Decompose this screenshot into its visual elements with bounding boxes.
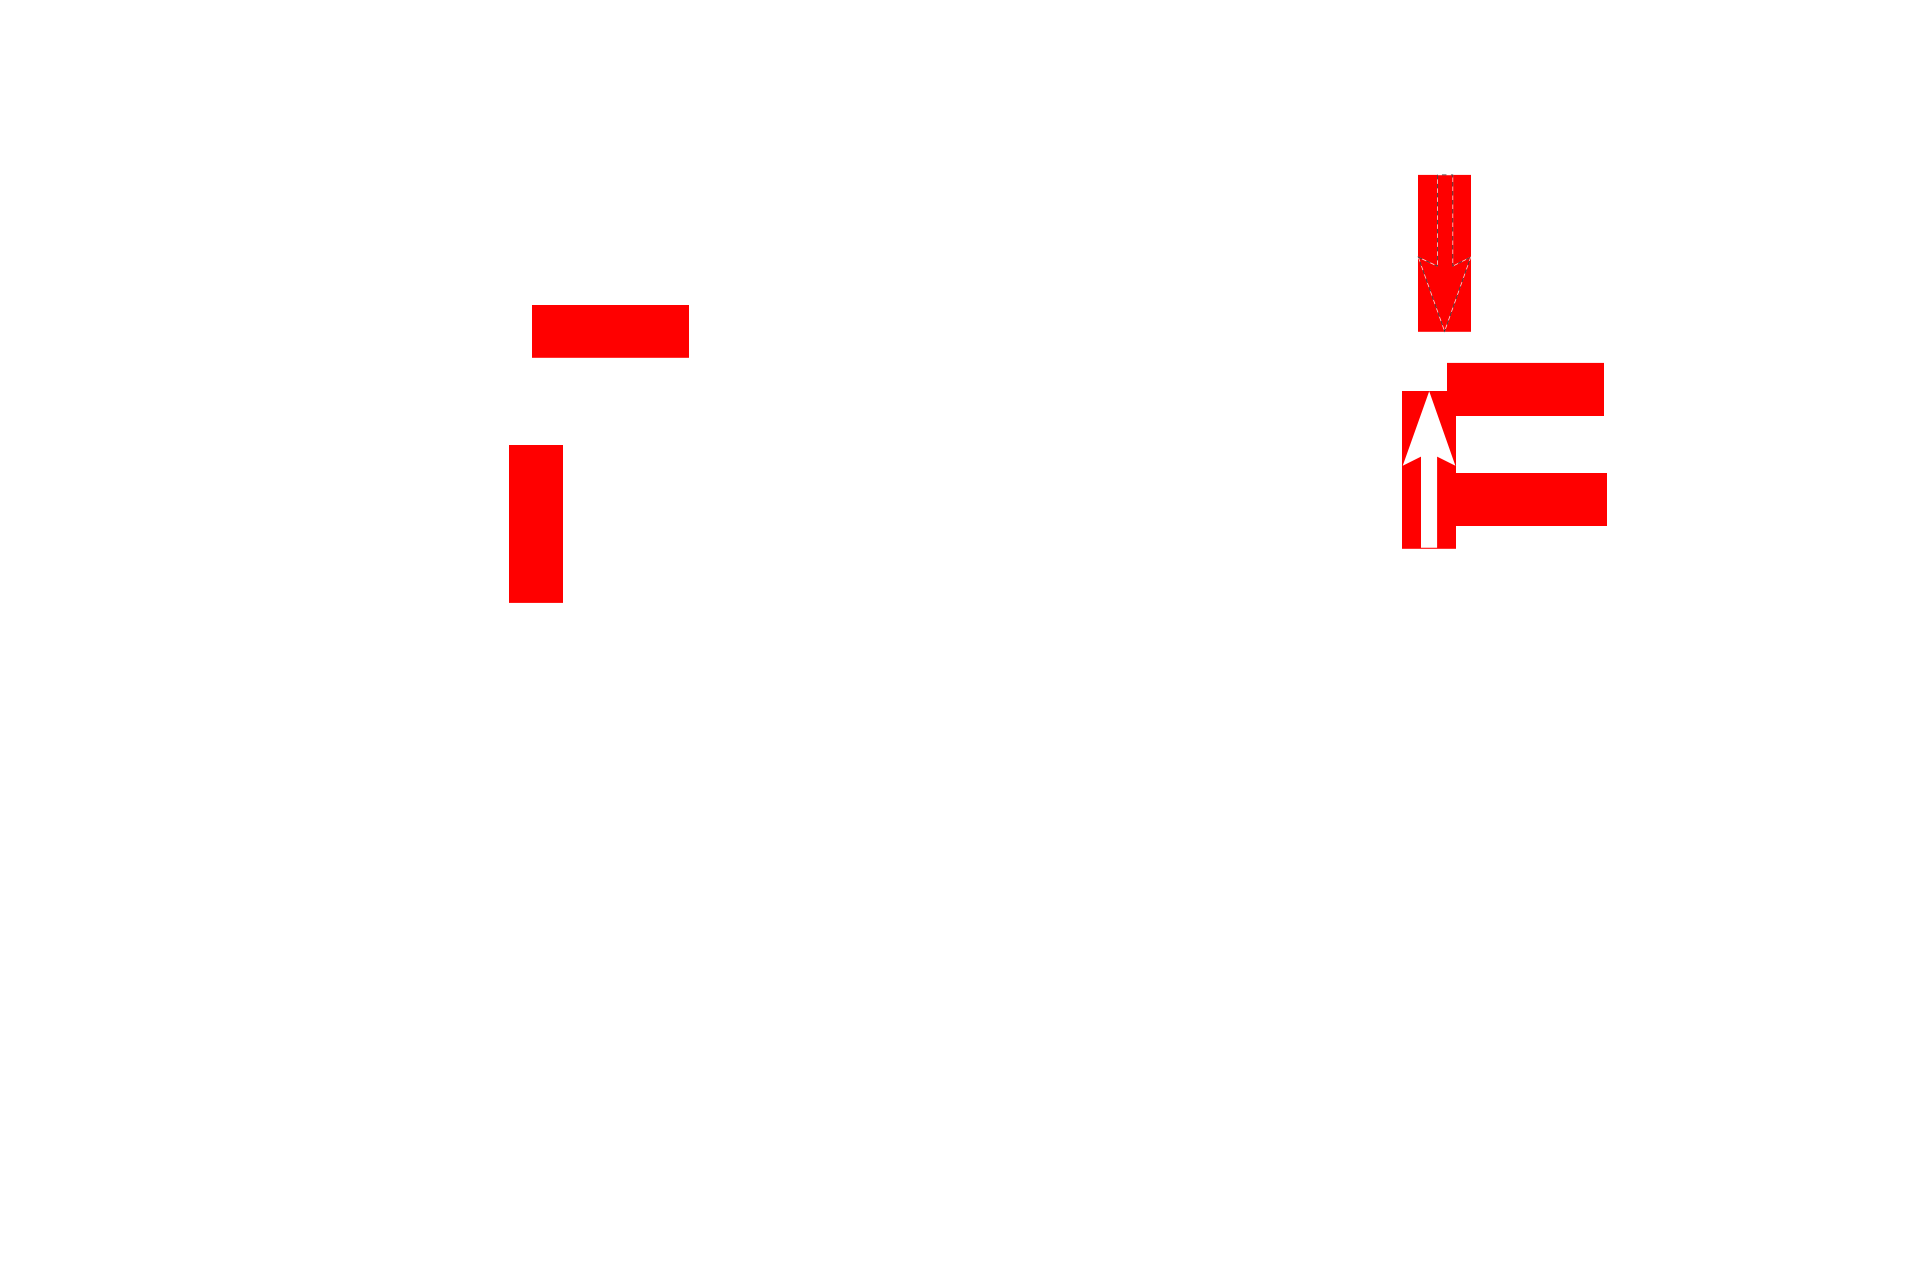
down arrow outline white underlay (1418, 175, 1470, 331)
down arrow outline black dashes (1418, 175, 1470, 331)
red horizontal bar (left group, top) (532, 305, 689, 358)
red horizontal bar (right group, top) (1447, 363, 1604, 416)
red vertical bar (right group, with up arrow) (1402, 391, 1456, 549)
red horizontal bar (right group, bottom) (1450, 473, 1607, 526)
white up arrow over red vertical bar (1403, 391, 1456, 548)
red rectangle containing down arrow (top right) (1418, 175, 1471, 332)
red vertical bar (left group, bottom) (509, 445, 563, 603)
